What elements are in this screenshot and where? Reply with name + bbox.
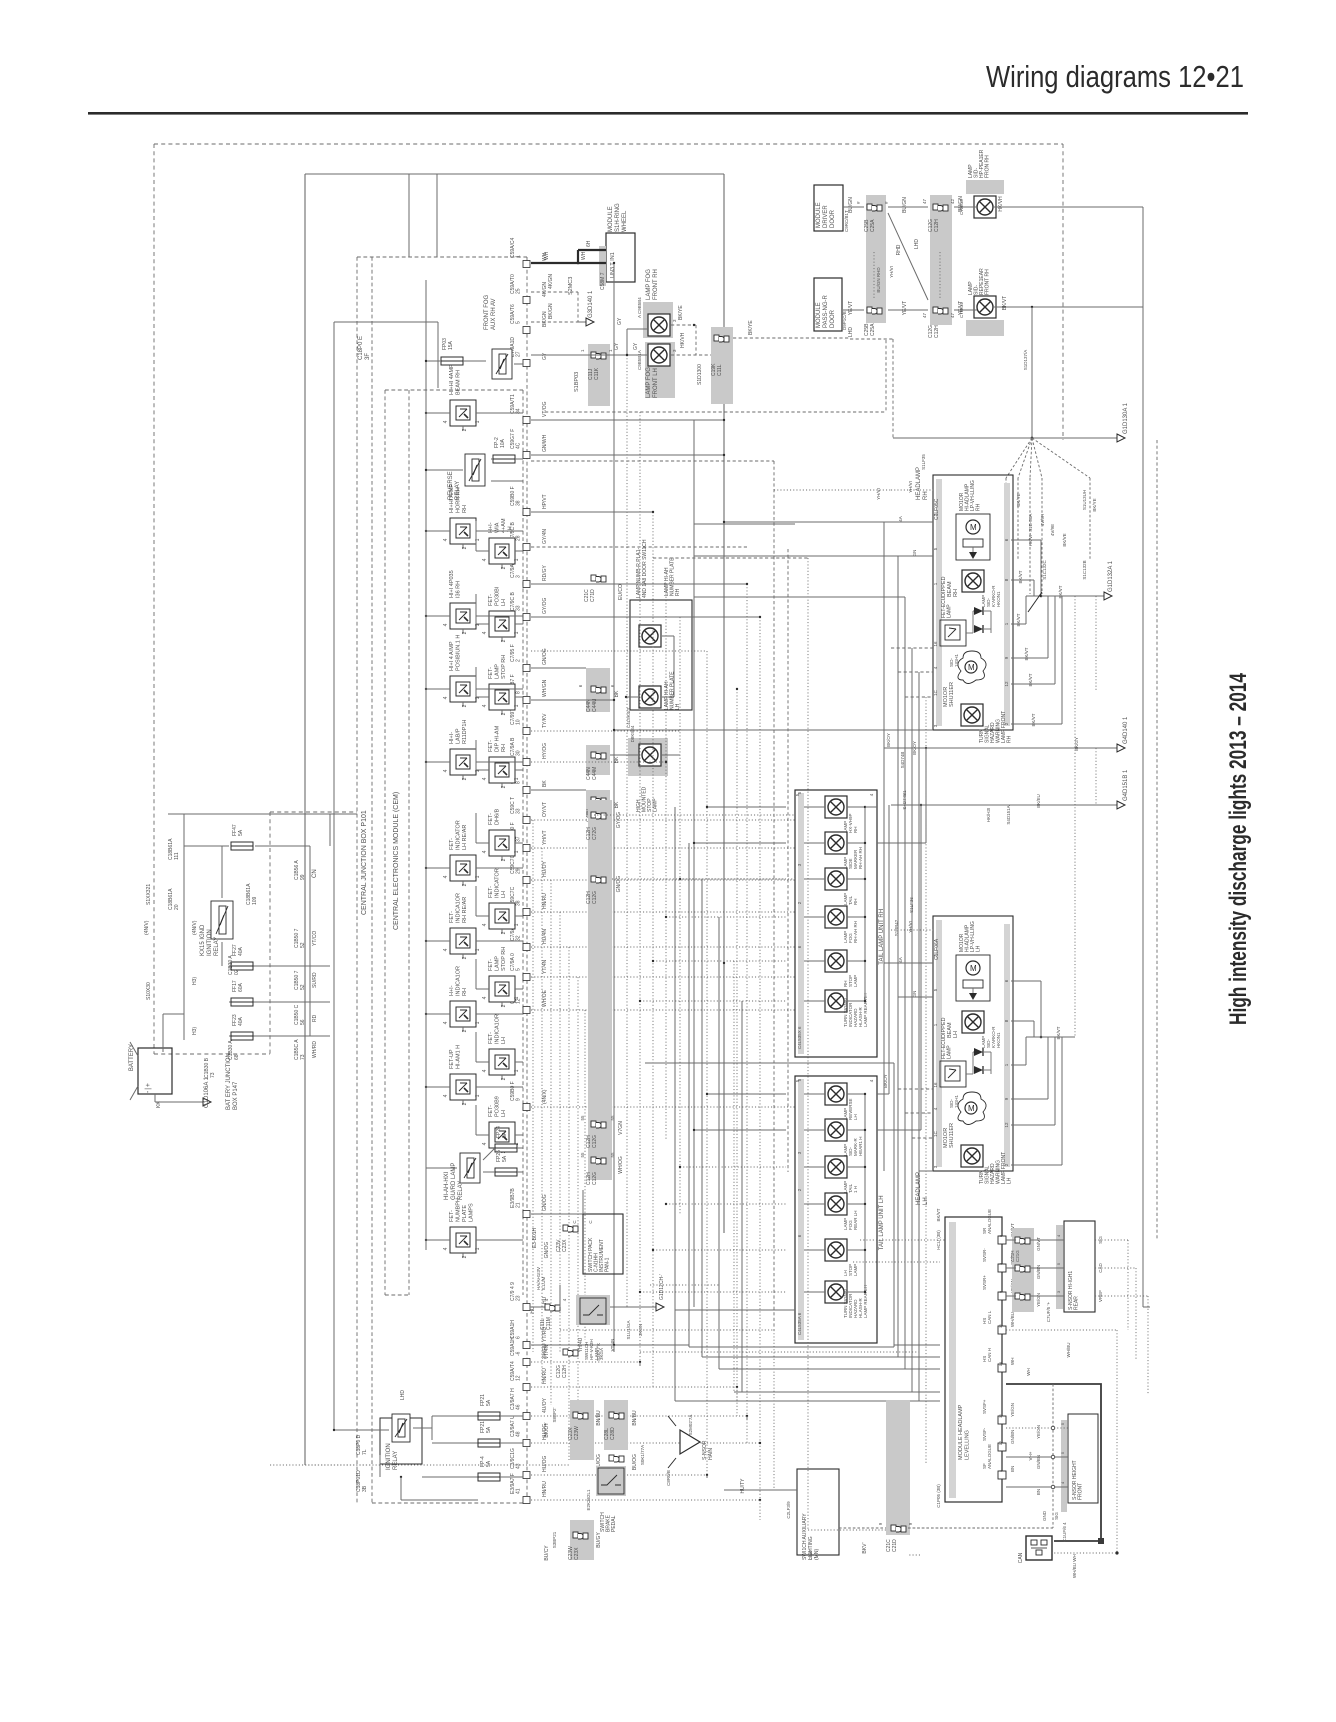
svg-text:1: 1 (475, 1094, 481, 1097)
svg-text:GN/WH: GN/WH (542, 434, 548, 452)
svg-text:MODULE: MODULE (816, 302, 822, 328)
door module wiring (843, 196, 977, 337)
CEM/CJB pin C59B7 F 8 (510, 674, 548, 703)
FET driver FET- STOP RH (right col) (482, 655, 521, 716)
svg-text:BU/CY: BU/CY (544, 1545, 550, 1561)
svg-text:C21G: C21G (1015, 1250, 1020, 1262)
svg-text:BK/VT: BK/VT (936, 1208, 941, 1221)
svg-text:4: 4 (443, 420, 449, 423)
svg-text:WH/OE: WH/OE (542, 989, 548, 1007)
svg-text:29: 29 (516, 868, 522, 874)
splice S4D74B BK/OY (877, 716, 1129, 843)
module steering wheel (599, 203, 635, 290)
sensor rain triangle (666, 1415, 714, 1486)
svg-text:4: 4 (482, 1142, 488, 1145)
svg-text:LH RE/AR: LH RE/AR (462, 825, 468, 850)
vertical page title (1225, 673, 1252, 1025)
svg-text:2: 2 (462, 956, 468, 959)
svg-text:2: 2 (501, 712, 507, 715)
FET driver HI+I 4 A/MP POSIBIUN.1 H (left col) (443, 635, 482, 708)
svg-text:52: 52 (300, 984, 306, 990)
svg-text:S1H-RING: S1H-RING (615, 203, 621, 232)
svg-text:YH/VT: YH/VT (542, 830, 548, 845)
svg-text:5A: 5A (486, 1399, 492, 1406)
svg-text:ANALOGUE: ANALOGUE (987, 1209, 992, 1234)
svg-text:GN/BN: GN/BN (1010, 1430, 1015, 1444)
svg-text:1: 1 (475, 948, 481, 951)
svg-text:BK/EU: BK/EU (1036, 794, 1041, 808)
svg-text:RH: RH (462, 505, 468, 513)
svg-text:C25A: C25A (870, 219, 876, 232)
svg-text:S1U1/GA: S1U1/GA (626, 1320, 631, 1339)
svg-text:47: 47 (922, 312, 927, 318)
vertical routing wires (middle) (614, 263, 926, 1530)
svg-text:BK/YE: BK/YE (1092, 498, 1097, 511)
svg-text:WHEEL: WHEEL (622, 210, 628, 232)
bottom connectors C12G pair (544, 1337, 615, 1378)
svg-text:C58M 7: C58M 7 (600, 272, 606, 290)
svg-text:HK/VI- S1D-30A: HK/VI- S1D-30A (1028, 514, 1033, 547)
svg-text:E3-B01H: E3-B01H (532, 1227, 538, 1248)
CEM/CJB pin C3/9A7 H 46 (510, 1388, 548, 1420)
svg-text:109: 109 (252, 896, 258, 905)
svg-text:HN/RU: HN/RU (542, 1481, 548, 1497)
svg-text:38: 38 (516, 500, 522, 506)
svg-text:RH: RH (853, 827, 858, 834)
svg-text:YT/4N: YT/4N (542, 959, 548, 974)
svg-text:16: 16 (933, 641, 938, 647)
ground G1D12CH (646, 1274, 665, 1311)
svg-text:C23X: C23X (574, 1547, 580, 1560)
svg-text:YE/GN: YE/GN (1010, 1403, 1015, 1417)
svg-text:HU/OY: HU/OY (542, 861, 548, 878)
CEM/CJB pin C59A73 8 (510, 766, 548, 794)
svg-text:FET-: FET- (488, 813, 494, 825)
svg-text:S1BP03: S1BP03 (574, 372, 580, 392)
svg-text:C12H: C12H (934, 325, 940, 338)
svg-text:43: 43 (516, 1463, 522, 1469)
svg-text:GN/BN: GN/BN (1036, 1265, 1041, 1279)
wire BK/OY from tail LH (877, 805, 889, 1094)
svg-text:BATTERY: BATTERY (129, 1044, 135, 1071)
long right vertical harness line (1143, 305, 1150, 1307)
ground junction fanout (850, 339, 1129, 594)
svg-text:M: M (968, 663, 975, 672)
svg-text:LH: LH (501, 891, 507, 898)
svg-text:LH: LH (853, 1114, 858, 1120)
svg-text:FET-: FET- (488, 594, 494, 606)
svg-text:BK/YE: BK/YE (1016, 493, 1021, 506)
CEM/CJB pin C59A/C4 1 (510, 237, 548, 267)
svg-text:2: 2 (501, 931, 507, 934)
svg-text:HY/OG: HY/OG (542, 743, 548, 759)
CEM/CJB pin C59G7 F 4C (510, 429, 548, 459)
connector C44N C44M lower + high mounted stop lamp (586, 725, 680, 812)
svg-text:1 H: 1 H (853, 1186, 858, 1193)
svg-text:4: 4 (443, 538, 449, 541)
svg-text:28: 28 (516, 535, 522, 541)
svg-text:FRONT FOG: FRONT FOG (484, 294, 490, 330)
svg-text:G1D132A 1: G1D132A 1 (1108, 560, 1114, 592)
CEM/CJB pin C59B0 F 9 (510, 1081, 548, 1110)
svg-text:2: 2 (462, 777, 468, 780)
CEM/CJB pin E3/9A7 F 41 (510, 1473, 548, 1503)
left boundary label C18P0 E (358, 336, 371, 360)
svg-text:2: 2 (501, 858, 507, 861)
svg-text:47: 47 (950, 312, 955, 318)
svg-text:HK/VH: HK/VH (998, 196, 1004, 212)
FET driver FET-UP HI-AM1 H (left col) (443, 1045, 482, 1106)
svg-text:SVSR-: SVSR- (982, 1248, 987, 1262)
CAN-H heavy wire loop (908, 1384, 1104, 1544)
module passenger door (814, 278, 847, 331)
svg-text:C21D: C21D (892, 1539, 898, 1552)
svg-text:GND: GND (1042, 1510, 1047, 1521)
svg-text:RH RE/AR: RH RE/AR (462, 897, 468, 923)
svg-text:5A: 5A (238, 829, 244, 836)
svg-text:HAIN: HAIN (708, 1448, 714, 1460)
svg-text:GN: GN (912, 991, 917, 998)
svg-text:32: 32 (516, 935, 522, 941)
tail lamp unit RH (795, 790, 885, 1057)
ground G1D106A 1 (193, 1076, 211, 1108)
FET driver FET- STOP RH (right col) (482, 947, 521, 1008)
svg-text:S1XX321: S1XX321 (146, 884, 152, 905)
svg-text:PASS-NG-R: PASS-NG-R (823, 294, 829, 328)
svg-text:YE/VT: YE/VT (958, 301, 964, 315)
svg-text:4: 4 (482, 631, 488, 634)
svg-text:FET-: FET- (449, 838, 455, 850)
bottom long dotted wires (270, 815, 795, 1465)
svg-text:4: 4 (482, 850, 488, 853)
svg-text:ILLUM: ILLUM (541, 1276, 546, 1290)
svg-text:1: 1 (514, 923, 520, 926)
svg-text:MODULE HEADLAMP: MODULE HEADLAMP (958, 1404, 964, 1460)
svg-text:BU/GN: BU/GN (902, 197, 908, 213)
svg-text:1: 1 (475, 1021, 481, 1024)
svg-text:GN0: GN0 (808, 1550, 813, 1560)
svg-text:BK/VT: BK/VT (1028, 673, 1033, 686)
svg-text:S2M02’7A: S2M02’7A (688, 1415, 693, 1436)
FET driver FET- LAMPS (left col) (443, 1198, 482, 1258)
CEM/CJB pin C59A1H 6 (510, 1320, 548, 1349)
CEM/CJB pin C59C7C 38 (510, 886, 548, 915)
CEM/CJB pin C7/9A B 30 (510, 737, 548, 766)
svg-text:C12G: C12G (592, 1135, 598, 1148)
svg-text:BOX P147: BOX P147 (233, 1081, 239, 1110)
svg-text:12: 12 (516, 1375, 522, 1381)
svg-text:1: 1 (514, 558, 520, 561)
svg-text:GY/4N: GY/4N (542, 529, 548, 544)
svg-text:A C9B5B4: A C9B5B4 (637, 297, 642, 318)
svg-text:HI+I 4 A/MP: HI+I 4 A/MP (449, 641, 455, 671)
svg-text:PLATE: PLATE (462, 1205, 468, 1222)
svg-text:RH: RH (853, 899, 858, 906)
svg-text:BEAM RH: BEAM RH (456, 370, 462, 395)
svg-text:2: 2 (462, 1102, 468, 1105)
svg-text:CN: CN (312, 869, 318, 878)
svg-text:INDICA1OR: INDICA1OR (456, 893, 462, 923)
bottom connector pair C23W C23X low (544, 1520, 602, 1561)
FET driver FET- RH (right col) (482, 725, 521, 788)
svg-text:GN/OG: GN/OG (616, 876, 622, 893)
svg-text:2: 2 (462, 704, 468, 707)
svg-text:2: 2 (462, 1029, 468, 1032)
svg-text:BU/GN: BU/GN (848, 197, 854, 213)
levelling module pins and labels (982, 1209, 1015, 1479)
svg-text:FET-: FET- (449, 911, 455, 923)
rear sensor dotted links (1095, 1240, 1148, 1395)
svg-text:RHD: RHD (896, 244, 902, 255)
svg-text:YH/VI: YH/VI (908, 481, 913, 493)
svg-text:M: M (968, 1104, 975, 1113)
svg-text:IGNITION: IGNITION (207, 929, 213, 956)
svg-text:GY/OG: GY/OG (616, 812, 622, 829)
svg-text:10A: 10A (500, 438, 506, 448)
svg-text:MODULE: MODULE (816, 202, 822, 228)
lamp number plate box (625, 539, 692, 710)
svg-text:4V/9H: 4V/9H (1040, 514, 1045, 527)
svg-text:RH: RH (923, 491, 929, 500)
FET driver HI+HI 4AMP BEAM RH (left col) (443, 364, 482, 431)
svg-text:S1U13UH: S1U13UH (1082, 490, 1087, 510)
svg-text:60A: 60A (238, 982, 244, 992)
svg-text:G1D106A 1: G1D106A 1 (204, 1076, 210, 1108)
svg-text:LH: LH (976, 945, 982, 952)
connector C44N C44M upper (578, 668, 631, 728)
svg-text:RH: RH (501, 744, 507, 752)
battery area connector labels (144, 838, 318, 1078)
svg-text:8: 8 (516, 691, 522, 694)
svg-text:23: 23 (516, 1295, 522, 1301)
svg-text:6H: 6H (586, 240, 592, 247)
svg-text:I36 RH: I36 RH (456, 581, 462, 598)
svg-text:BK/YE: BK/YE (748, 320, 754, 335)
svg-text:RELAY: RELAY (393, 1451, 399, 1470)
svg-text:8: 8 (516, 781, 522, 784)
CEM/CJB pin E7/9A1D 27 (510, 337, 548, 367)
svg-text:S4D74B: S4D74B (900, 752, 905, 769)
svg-text:C12H: C12H (934, 219, 940, 232)
svg-text:FET-: FET- (488, 667, 494, 679)
svg-text:C1P05 (3B): C1P05 (3B) (936, 1484, 941, 1508)
svg-text:48: 48 (516, 1431, 522, 1437)
svg-text:STOP RH: STOP RH (501, 947, 507, 971)
svg-text:HKON1: HKON1 (996, 1032, 1001, 1048)
CEM/CJB pin C59B0 F 37 (510, 822, 548, 851)
horizontal routing wires (middle) (531, 420, 945, 1500)
CEM/CJB pin C7/9C B 28 (510, 521, 548, 550)
CEM/CJB pin C59A/T6 5 (510, 304, 548, 333)
svg-text:YE/VT: YE/VT (902, 301, 908, 315)
svg-text:GY/OG: GY/OG (542, 597, 548, 614)
splice S4D151A BK/EU (877, 769, 1129, 1130)
svg-text:2: 2 (501, 1077, 507, 1080)
svg-text:(4N/X): (4N/X) (542, 1089, 548, 1104)
connector C25H C25A upper (856, 195, 889, 323)
svg-text:HU/TY: HU/TY (740, 1478, 746, 1494)
bottom dotted verticals (560, 1190, 920, 1555)
svg-text:C7UF/5 ’+: C7UF/5 ’+ (1046, 1301, 1051, 1322)
wire 25 dashed to junction (531, 274, 578, 322)
switch pack instrument panel (532, 1214, 623, 1290)
svg-text:HI+I-: HI+I- (449, 732, 455, 744)
svg-text:FET-: FET- (488, 1032, 494, 1044)
svg-text:1: 1 (514, 1069, 520, 1072)
svg-text:4V/9E: 4V/9E (1050, 524, 1055, 536)
svg-text:HEADLAMP: HEADLAMP (916, 467, 922, 500)
svg-text:DOOR: DOOR (830, 309, 836, 328)
svg-text:12: 12 (998, 1440, 1003, 1445)
svg-text:VT/4N: VT/4N (544, 1345, 550, 1360)
svg-text:FET-UP: FET-UP (449, 1049, 455, 1069)
FET driver HI+HI A/MP RH (left col) (443, 484, 482, 550)
svg-text:7L: 7L (362, 1449, 368, 1455)
fog lamp wiring (531, 305, 713, 392)
svg-text:C12G: C12G (592, 1172, 598, 1185)
svg-text:4: 4 (482, 558, 488, 561)
fuse FF47 5A (231, 824, 253, 850)
svg-text:BK: BK (542, 780, 548, 787)
svg-text:46: 46 (516, 1404, 522, 1410)
svg-text:HI+I 4P035: HI+I 4P035 (449, 570, 455, 598)
svg-text:REAR: REAR (1074, 1296, 1080, 1310)
fuse FF17 60A (231, 980, 253, 1006)
central electronics module CEM (dashed) (385, 390, 523, 1295)
svg-text:111: 111 (174, 852, 180, 860)
svg-text:D9P1C/B: D9P1C/B (842, 311, 847, 330)
svg-text:WH/GN: WH/GN (542, 679, 548, 697)
CEM/CJB pin C59A/T1 34 (510, 394, 548, 423)
svg-text:RH-AH RH: RH-AH RH (858, 847, 863, 869)
pin exit drop wires (dotted verticals left band) (531, 820, 585, 1460)
svg-text:WH/BU: WH/BU (1066, 1343, 1071, 1358)
svg-text:ANALOGUE: ANALOGUE (987, 1444, 992, 1469)
svg-text:4ND 1A8 DOOR SW11CH: 4ND 1A8 DOOR SW11CH (642, 539, 648, 598)
svg-text:47: 47 (922, 198, 927, 204)
svg-text:KX15 IGND: KX15 IGND (200, 924, 206, 956)
svg-text:RH: RH (953, 589, 959, 597)
svg-text:16: 16 (933, 1082, 938, 1088)
svg-text:1: 1 (475, 420, 481, 423)
svg-text:BK/YE: BK/YE (678, 305, 684, 320)
svg-text:1: 1 (475, 875, 481, 878)
svg-text:S1LF35: S1LF35 (921, 454, 926, 470)
svg-text:DOOR: DOOR (830, 209, 836, 228)
bottom connector bars near brake switch (544, 1400, 645, 1482)
sensor height front box (1006, 1414, 1098, 1542)
svg-text:YH/VI: YH/VI (889, 266, 894, 278)
svg-text:INDICATOR: INDICATOR (495, 868, 501, 898)
svg-text:BU/OG: BU/OG (632, 1454, 638, 1470)
svg-text:SVSF-: SVSF- (982, 1427, 987, 1441)
svg-text:VH+: VH+ (1028, 1451, 1033, 1460)
connector C11J C11K (580, 344, 613, 406)
svg-text:OY/VT: OY/VT (542, 802, 548, 817)
svg-text:37: 37 (516, 836, 522, 842)
lamp fog front RH (637, 269, 677, 338)
svg-text:RELAY: RELAY (458, 1181, 464, 1200)
svg-text:RH: RH (675, 588, 681, 596)
svg-text:D8K9B4: D8K9B4 (630, 725, 635, 742)
svg-text:YH/4U: YH/4U (578, 1337, 584, 1352)
ignition relay (bottom) (333, 1390, 478, 1500)
svg-text:HCU (3B): HCU (3B) (936, 1230, 941, 1250)
svg-text:5A: 5A (502, 1131, 508, 1138)
fuse FP21 a (478, 1394, 523, 1420)
svg-text:2: 2 (501, 639, 507, 642)
svg-text:40A: 40A (238, 1016, 244, 1026)
battery (129, 1042, 203, 1108)
numberplate relay + fuses FP24 FP25 (426, 1126, 523, 1200)
svg-text:1: 1 (516, 255, 522, 258)
thick battery wire to steering module (531, 240, 606, 295)
svg-text:-6: -6 (516, 1351, 522, 1356)
svg-text:2: 2 (516, 659, 522, 662)
svg-text:C4L535A 6: C4L535A 6 (797, 1312, 802, 1335)
svg-text:10: 10 (516, 719, 522, 725)
svg-text:BN/BU: BN/BU (596, 1410, 602, 1426)
svg-text:REVERSE: REVERSE (448, 471, 454, 500)
svg-text:C11K: C11K (594, 367, 600, 380)
FET driver FET- LH (right col) (482, 1014, 521, 1080)
svg-text:BKV’: BKV’ (862, 1542, 868, 1553)
svg-text:GN: GN (912, 550, 917, 557)
svg-text:NUMBPH: NUMBPH (456, 1198, 462, 1222)
svg-text:LAMP: LAMP (853, 1264, 858, 1276)
svg-text:30: 30 (516, 750, 522, 756)
svg-text:BK/VT: BK/VT (1002, 296, 1008, 310)
svg-text:S10X30: S10X30 (146, 982, 152, 1000)
svg-text:C11M: C11M (546, 1317, 552, 1330)
svg-text:POSIBIUN.1 H: POSIBIUN.1 H (456, 635, 462, 671)
svg-text:BK/OY: BK/OY (886, 733, 891, 747)
CEM/CJB pin C59A1H -6 (510, 1337, 548, 1366)
svg-text:5: 5 (516, 968, 522, 971)
svg-text:73: 73 (300, 1054, 306, 1060)
svg-text:BK: BK (614, 801, 620, 808)
headlamp LH feed wires (894, 897, 917, 998)
svg-text:4: 4 (482, 1069, 488, 1072)
svg-text:LH: LH (501, 599, 507, 606)
svg-text:4: 4 (443, 1094, 449, 1097)
page header: Wiring diagrams 12-21 (986, 59, 1244, 94)
CEM/CJB pin C59A/T0 25 (510, 274, 548, 303)
svg-text:H+I-: H+I- (449, 985, 455, 996)
svg-text:LHD: LHD (400, 1390, 406, 1400)
svg-text:55: 55 (610, 1115, 615, 1121)
junction dots middle mesh (613, 262, 761, 1501)
svg-text:FET-: FET- (488, 740, 494, 752)
svg-text:40A: 40A (238, 946, 244, 956)
svg-text:HU/4N: HU/4N (542, 929, 548, 944)
FET driver FET- LH (right col) (482, 586, 521, 642)
tail lamp LH top pins (795, 1079, 874, 1082)
reverse relay + fuse FP-2 (425, 437, 523, 500)
svg-text:BK: BK (614, 690, 620, 697)
svg-text:4A: 4A (898, 516, 903, 522)
svg-text:73: 73 (210, 1072, 216, 1078)
FET driver H+I- RH (left col) (443, 966, 482, 1032)
svg-text:C59A1H: C59A1H (510, 1320, 516, 1339)
svg-text:FET-: FET- (488, 959, 494, 971)
svg-text:SVSR+: SVSR+ (982, 1275, 987, 1290)
fuse FF27 40A (231, 944, 253, 970)
svg-text:PO30BI: PO30BI (495, 586, 501, 606)
svg-text:BK/VT: BK/VT (1016, 613, 1021, 626)
svg-text:GN/OG: GN/OG (544, 1242, 550, 1259)
svg-text:CAN L: CAN L (987, 1310, 992, 1324)
